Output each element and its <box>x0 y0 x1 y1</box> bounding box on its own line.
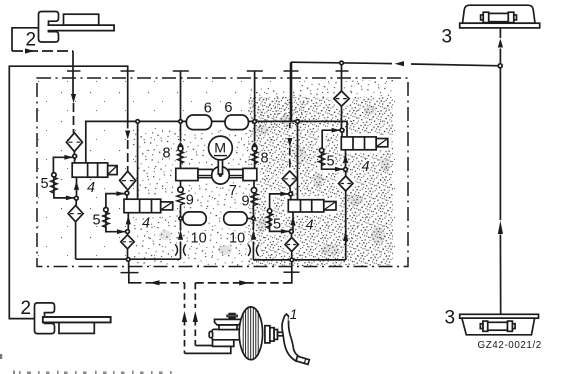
filter F1 (valve 4a supply diamond) <box>66 133 82 152</box>
node right manifold-MC <box>290 258 294 262</box>
filter F4 (valve 4d supply diamond) <box>334 91 349 106</box>
svg-text:2: 2 <box>26 30 37 51</box>
pump cylinder left <box>176 168 198 180</box>
wire valve 4d supply riser x=341.5 <box>341 64 343 91</box>
svg-text:M: M <box>214 141 226 157</box>
svg-text:6: 6 <box>204 100 212 116</box>
drum 3a backing plate <box>460 23 540 28</box>
node bus-valve4b <box>136 120 140 124</box>
wire valve 4c thick supply drop <box>290 62 293 121</box>
wire valve 4c dashed drop to filter <box>289 123 291 172</box>
wire MC riser 2 to master cylinder port <box>195 345 213 347</box>
wheel cylinder 3b <box>488 322 508 330</box>
caliper 2a body <box>39 12 59 43</box>
caliper 2b body (rear-left shown lower) <box>35 303 55 334</box>
wire rear brake main line x=500.4 <box>499 22 501 323</box>
wire valve 4a diamond-to-port stub <box>73 152 75 164</box>
svg-text:GZ42-0021/2: GZ42-0021/2 <box>478 340 542 351</box>
brake disc 2b <box>43 317 111 322</box>
arrow pilot 4a top <box>64 155 73 160</box>
svg-text:10: 10 <box>191 231 207 247</box>
svg-text:4: 4 <box>142 215 150 231</box>
spring 5d top node <box>319 148 323 152</box>
wire accumulator bus y=121.4 with risers to valves 4a,4d <box>86 121 347 163</box>
node valve 4d bottom port <box>344 168 348 172</box>
pedal pad <box>296 356 309 364</box>
wire left MC branch: down from manifold junction through housing <box>129 262 133 283</box>
spring 9a <box>177 192 184 205</box>
wire pump inlet-right wall line x=254.6 <box>254 71 256 169</box>
spring 5d <box>318 153 325 170</box>
master cylinder 1: lower body <box>213 340 234 347</box>
wire reservoir 10b stub <box>247 218 253 220</box>
svg-text:4: 4 <box>362 159 370 175</box>
junction node rear line / top supply <box>498 64 502 68</box>
wire valve 4a bottom port line <box>75 177 77 205</box>
filter F2 (valve 4b supply diamond) <box>120 171 136 190</box>
wire valve 4c bus riser <box>297 123 299 200</box>
arrow pilot 4c top <box>280 192 289 197</box>
boundary tick valve4d line <box>336 70 349 72</box>
pump cylinder right <box>243 168 257 180</box>
wire valve 4b return diamond stub <box>127 249 129 258</box>
arrow left on left MC branch <box>150 280 160 285</box>
booster pushrod bellows <box>265 326 270 343</box>
boundary tick pumpL line <box>173 70 189 72</box>
svg-text:3: 3 <box>445 308 456 329</box>
node reservoir 10b port <box>252 217 255 220</box>
wire reservoir-left column <box>180 192 182 259</box>
wire valve 4a supply column x=73 <box>72 51 74 94</box>
spring 5a top node <box>52 173 56 177</box>
brake disc 2a <box>48 25 115 30</box>
svg-text:5: 5 <box>273 217 281 233</box>
solenoid coil 4a <box>108 166 117 175</box>
node valve 4a bottom port <box>74 196 78 200</box>
wire valve 4b bottom port line <box>127 213 130 235</box>
spring 5c <box>266 213 273 231</box>
spring 5c top node <box>267 209 271 213</box>
filter F7 (valve 4c return diamond) <box>285 238 298 252</box>
arrow pilot 4c bottom <box>281 229 290 234</box>
wire front-left caliper pipe (dashed to valve 4a column) <box>12 50 73 52</box>
accumulator 6b <box>225 115 248 130</box>
check valve pump-right inlet <box>251 188 256 193</box>
wire right return manifold y=259.9 <box>253 259 345 261</box>
arrow up MC riser 2 <box>193 311 198 322</box>
actuator housing boundary (chain line box) <box>37 78 408 267</box>
wire valve 4b pilot loop <box>106 194 125 232</box>
arrow right on right MC branch <box>239 280 249 285</box>
svg-text:4: 4 <box>306 218 314 234</box>
node valve 4c top port <box>289 192 293 196</box>
solenoid valve 4d body <box>341 137 376 150</box>
arrow up MC riser 1 <box>182 311 187 322</box>
filter F3 (valve 4c supply diamond) <box>282 171 297 187</box>
svg-text:5: 5 <box>93 213 101 229</box>
boundary tick right MC branch <box>284 271 300 273</box>
node rear line-valve4d <box>340 61 344 65</box>
master cylinder 1: reservoir lid <box>215 319 242 325</box>
wire pump inlet-left wall line x=180.5 <box>180 71 182 169</box>
wire valve 4c diamond-to-port stub <box>290 187 291 200</box>
boundary tick left MC branch <box>121 272 139 274</box>
brake disc 2a inner part <box>48 25 115 30</box>
spring 8a <box>177 151 183 168</box>
drum brake 3b shell <box>462 318 535 335</box>
solenoid valve 4c body <box>288 200 324 212</box>
boundary tick valve4a line <box>67 70 81 72</box>
caption fragment at bottom edge <box>0 354 172 374</box>
node bus-pumpR <box>253 120 257 124</box>
brake pedal <box>282 314 299 361</box>
arrow up reservoir 10b feed <box>251 230 256 240</box>
spring 8b <box>252 151 258 168</box>
arrow up rear line top <box>498 39 503 48</box>
wire pump-left inlet stub <box>180 181 182 187</box>
check valve pump-right outlet <box>251 142 258 147</box>
wire pump-right inlet stub <box>252 181 255 207</box>
solenoid coil 4d <box>376 139 388 147</box>
solenoid valve 4b body <box>124 199 161 213</box>
node left manifold-MC <box>126 258 130 262</box>
solenoid coil 4c <box>324 202 336 211</box>
wire right MC branch: riser2 corner to valve4c junction drop <box>195 282 287 284</box>
arrow down valve4b supply <box>125 131 130 140</box>
wheel cylinder 3a <box>489 13 509 21</box>
wire valve 4c bottom port line <box>292 212 294 237</box>
master cylinder 1: left nub <box>209 332 212 338</box>
wire MC riser 1 (dashed) <box>184 283 186 354</box>
spring 5b <box>103 212 110 232</box>
boundary tick valve4b line <box>121 70 135 72</box>
pump piston left <box>198 169 212 177</box>
master cylinder 1: reservoir neck <box>219 325 237 330</box>
texture will be inserted here <box>38 79 407 266</box>
arrow pilot 4b top <box>116 191 125 196</box>
brake pad 2a <box>64 14 99 25</box>
orifice left (restrictor) <box>175 244 186 255</box>
svg-text:4: 4 <box>87 180 95 196</box>
wire MC riser 2 (dashed) <box>194 283 196 346</box>
booster ribs <box>243 307 258 360</box>
arrow up valve4d return <box>343 231 348 241</box>
drum brake 3b backing plate <box>460 314 539 318</box>
svg-text:5: 5 <box>327 154 335 170</box>
node valve 4a top port <box>73 154 77 158</box>
wire valve 4b diamond-to-port stub <box>126 190 129 199</box>
svg-text:10: 10 <box>229 231 245 247</box>
wire valve 4d bottom port line <box>345 150 347 168</box>
arrow down valve4c filter drop <box>287 138 292 147</box>
svg-text:5: 5 <box>41 176 49 192</box>
reservoir 10b <box>224 212 247 225</box>
pump piston right <box>229 169 243 177</box>
spring 9b <box>250 193 257 206</box>
wire valve 4d return drop to manifold <box>345 171 347 260</box>
solenoid coil 4b <box>161 202 173 210</box>
wire reservoir-right column <box>252 206 254 260</box>
arrow down valve4a supply <box>71 94 76 103</box>
master cylinder 1: filler cap <box>229 314 235 318</box>
arrow left on rear supply line <box>395 61 405 66</box>
arrow up rear line mid <box>498 221 503 235</box>
check valve pump-left inlet <box>178 187 183 192</box>
node valve 4b bottom port <box>126 230 130 234</box>
wire valve 4c pilot loop <box>270 194 290 232</box>
pump crank <box>212 167 230 185</box>
reservoir 10a <box>183 212 206 225</box>
wire valve 4d pilot loop <box>322 130 344 169</box>
arrow up into valve 4a bottom <box>74 181 79 190</box>
arrow up reservoir 10a feed <box>178 230 183 240</box>
accumulator 6a <box>186 115 211 130</box>
wire MC riser 1 bottom run under master cylinder <box>185 346 231 353</box>
svg-text:9: 9 <box>242 194 250 210</box>
arrow pilot 4a bottom <box>66 196 75 201</box>
orifice right (restrictor) <box>248 245 259 256</box>
drum brake 3a shell <box>463 5 536 23</box>
motor shaft <box>218 160 222 175</box>
svg-text:9: 9 <box>186 193 194 209</box>
svg-text:8: 8 <box>261 150 269 166</box>
svg-text:7: 7 <box>229 183 237 199</box>
arrow pilot 4b bottom <box>117 229 126 234</box>
wire left return manifold y=259.2 <box>76 258 181 260</box>
node valve 4c bottom port <box>290 230 294 234</box>
spring 5a <box>51 177 58 193</box>
arrow pilot 4d bottom <box>335 167 344 172</box>
svg-text:1: 1 <box>290 307 298 322</box>
wire valve 4a return to manifold <box>75 222 77 259</box>
arrow up into valve 4b bottom <box>126 215 131 224</box>
boundary tick valve4c thick line <box>284 70 299 72</box>
wire reservoir 10a stub <box>181 218 184 220</box>
filter F6 (valve 4b return diamond) <box>121 235 134 249</box>
arrow up into valve 4c bottom <box>290 216 295 225</box>
boundary tick pumpR line <box>247 70 263 72</box>
master cylinder 1: main body <box>212 329 242 339</box>
white halos under components in textured zones <box>106 91 388 256</box>
node bus-pumpL <box>179 120 183 124</box>
node valve 4d top port <box>340 128 344 132</box>
wire front-left caliper pipe (solid part) <box>12 28 48 51</box>
wire valve 4b bus riser <box>137 123 139 199</box>
arrow to valve4a column (right) <box>25 48 35 53</box>
filter F5 (valve 4a return diamond) <box>68 205 83 221</box>
motor M <box>209 136 233 160</box>
brake booster shell <box>239 307 262 360</box>
filter F8 (valve 4d return diamond) <box>339 176 353 191</box>
svg-text:2: 2 <box>21 298 32 319</box>
wire valve 4a pilot loop <box>53 157 74 198</box>
svg-text:3: 3 <box>442 27 453 48</box>
brake pad 2b <box>59 322 94 333</box>
wire rear supply top line y=62..66 <box>291 62 500 66</box>
spring 5b top node <box>104 208 108 212</box>
node valve 4b top port <box>125 191 129 195</box>
node reservoir 10a port <box>179 217 182 220</box>
svg-text:6: 6 <box>224 100 232 116</box>
arrow up into valve 4d bottom <box>343 154 348 163</box>
node bus-valve4c <box>296 120 300 124</box>
solenoid valve 4a body <box>72 163 108 177</box>
svg-text:8: 8 <box>163 145 171 161</box>
check valve pump-left outlet <box>177 142 184 147</box>
wire valve 4b supply (dashed below arrow) <box>127 140 129 171</box>
wire valve 4c return diamond stub <box>291 252 293 259</box>
wire rear-left caliper pipe: left edge, top edge, down to valve 4b <box>9 66 127 318</box>
arrow pilot 4d top <box>332 128 341 133</box>
